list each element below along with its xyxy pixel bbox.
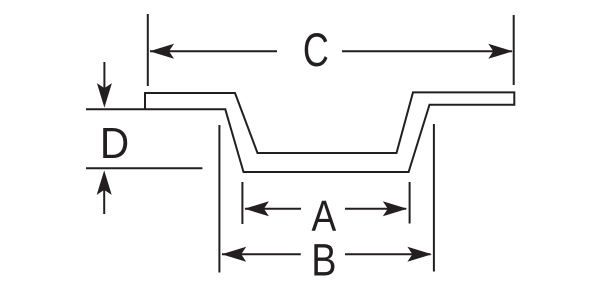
dimension C extension line left — [147, 14, 149, 86]
dimension C line left segment — [150, 50, 277, 52]
dimension A extension line right — [409, 182, 411, 224]
svg-text:B: B — [311, 234, 336, 285]
dimension B line right segment — [345, 253, 431, 255]
dimension C arrow left — [150, 44, 175, 59]
svg-text:C: C — [303, 24, 329, 77]
svg-text:A: A — [311, 191, 336, 241]
dimension A line right segment — [345, 208, 406, 210]
dimension A arrow right — [383, 201, 408, 216]
dimension A line left segment — [245, 208, 301, 210]
trough profile outline — [86, 92, 514, 172]
dimension C extension line right — [513, 15, 515, 85]
dimension C line right segment — [342, 50, 512, 52]
dimension B arrow right — [407, 247, 432, 262]
dimension B extension line left — [218, 125, 220, 273]
dimension A extension line left — [241, 182, 243, 224]
svg-text:D: D — [100, 118, 129, 167]
dimension C arrow right — [488, 44, 513, 59]
dimension A arrow left — [244, 201, 269, 216]
dimension B line left segment — [222, 253, 301, 255]
dimension D arrow down — [103, 62, 105, 92]
dimension B arrow left — [222, 247, 247, 262]
dimension D arrow up — [103, 190, 105, 214]
dimension B extension line right — [433, 124, 435, 272]
dimension D lower reference line — [86, 167, 202, 169]
